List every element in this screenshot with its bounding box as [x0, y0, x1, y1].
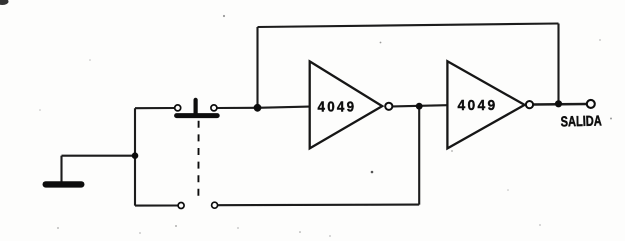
- wire left vertical branch: [134, 108, 136, 205]
- wire switch upper right to inverter input: [217, 107, 309, 108]
- wire top feedback horizontal: [258, 24, 559, 28]
- inverter U1a: [310, 61, 393, 148]
- node B junction feedback left: [254, 104, 262, 112]
- smudge top-left corner: [0, 0, 9, 5]
- node A junction left: [132, 152, 139, 159]
- node C junction between inverters: [416, 103, 423, 110]
- pushbutton S1: [175, 100, 218, 209]
- specks: [175, 15, 612, 233]
- svg-text:4049: 4049: [458, 97, 498, 114]
- wire feedback left vertical: [256, 27, 258, 108]
- svg-text:SALIDA: SALIDA: [560, 113, 602, 130]
- wire inverter1 output to inverter2 input: [393, 105, 447, 106]
- wire junction vertical down: [418, 106, 420, 204]
- wire inverter2 output to terminal: [533, 103, 586, 106]
- paper speckles: [39, 39, 601, 237]
- svg-text:4049: 4049: [318, 99, 357, 116]
- wire bottom left to switch lower left: [135, 204, 178, 206]
- ground: [46, 181, 82, 187]
- wire ground to node: [62, 155, 136, 157]
- node D junction feedback right: [555, 100, 562, 107]
- wire ground stem vertical: [60, 156, 62, 184]
- output terminal: [587, 100, 595, 108]
- wire node to switch upper left: [135, 107, 174, 109]
- inverter U1b: [447, 61, 533, 148]
- wire bottom horizontal: [218, 204, 419, 207]
- wire feedback right vertical: [557, 24, 559, 105]
